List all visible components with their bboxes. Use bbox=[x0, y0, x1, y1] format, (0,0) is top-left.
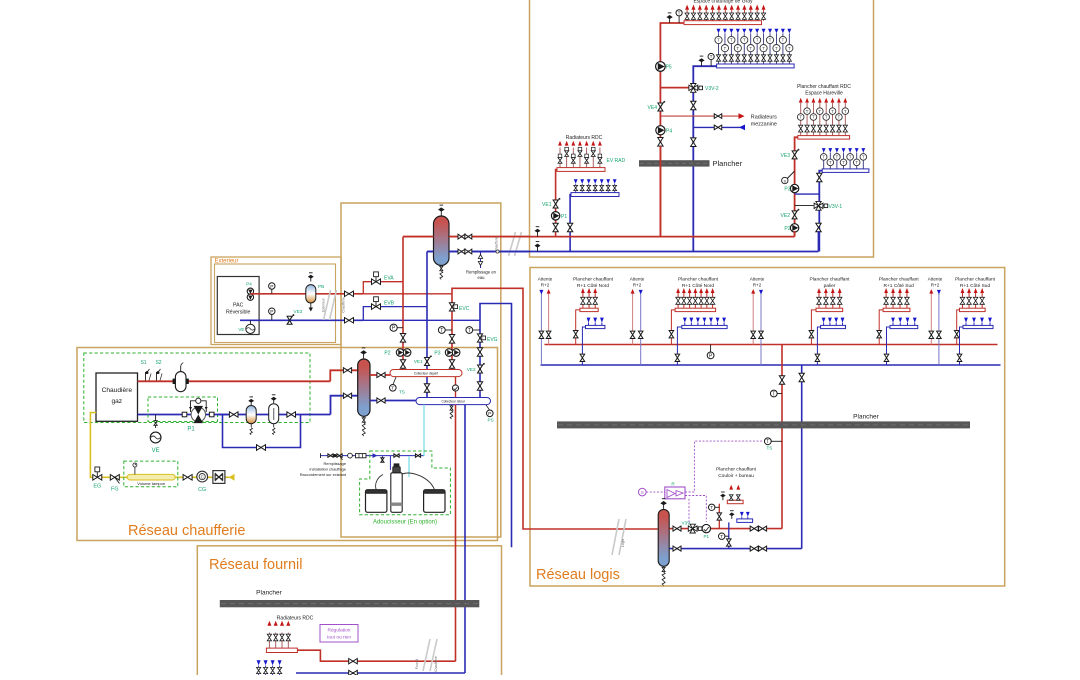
pipe: logis red riser bbox=[781, 345, 783, 529]
plancher slab fournil bbox=[220, 600, 480, 607]
pipe: logis red main bbox=[545, 344, 998, 346]
svg-text:Réseau logis: Réseau logis bbox=[536, 567, 620, 583]
valves on blue main bbox=[458, 249, 465, 254]
pump P3 (Hareville) bbox=[790, 184, 798, 192]
svg-text:V3V: V3V bbox=[682, 521, 692, 526]
svg-text:R+2: R+2 bbox=[753, 283, 762, 288]
svg-text:Plancher chauffant: Plancher chauffant bbox=[879, 277, 920, 283]
svg-text:R+2: R+2 bbox=[633, 283, 642, 288]
svg-text:EV RAD: EV RAD bbox=[607, 158, 626, 164]
valve on blue drop bbox=[567, 223, 572, 232]
valve on red at chaufferie border bbox=[345, 291, 354, 296]
manifold: Radiateurs RDC blue return (7) bbox=[571, 193, 619, 197]
pipe: fournil red supply vertical bbox=[455, 405, 457, 662]
valve below V3V-1 bbox=[816, 223, 821, 232]
pipe: blue vertical from top box to collecteur retour bbox=[426, 252, 428, 398]
manifold: fournil radiators blue (4) bbox=[258, 666, 260, 676]
svg-text:T: T bbox=[710, 505, 713, 511]
svg-text:mezzanine: mezzanine bbox=[751, 122, 777, 128]
svg-text:Plancher: Plancher bbox=[256, 590, 282, 597]
svg-text:EG: EG bbox=[93, 484, 101, 490]
valve blue before tank bbox=[343, 393, 351, 398]
svg-text:T: T bbox=[720, 534, 723, 540]
svg-text:Exterieur: Exterieur bbox=[215, 259, 239, 265]
tank: bouteille de decouplage (upper) bbox=[440, 211, 442, 216]
svg-text:S: S bbox=[641, 490, 644, 495]
svg-text:Régulation: Régulation bbox=[328, 628, 351, 634]
zone: pump P1 dashed box bbox=[148, 397, 218, 422]
svg-text:T: T bbox=[836, 155, 839, 160]
pipe: tank to collecteur depart bbox=[370, 374, 390, 376]
svg-text:EVC: EVC bbox=[459, 306, 470, 312]
collecteur depart bbox=[390, 370, 462, 377]
valve V3V-2 three-way bbox=[660, 87, 693, 89]
svg-text:T: T bbox=[799, 115, 802, 120]
gas meter box bbox=[213, 471, 225, 484]
pipe: logis blue main bbox=[541, 364, 1001, 366]
svg-text:T: T bbox=[806, 109, 809, 114]
svg-text:T: T bbox=[822, 155, 825, 160]
gas arrow bbox=[229, 474, 235, 481]
svg-text:VE2: VE2 bbox=[781, 213, 791, 219]
svg-text:S2: S2 bbox=[155, 360, 161, 366]
zone: boiler circuit dashed box bbox=[84, 353, 310, 423]
svg-text:Chaufferie: Chaufferie bbox=[342, 297, 346, 313]
gauge P on logis red main bbox=[710, 345, 712, 356]
pipe: red supply elbow to top-left manifold bbox=[660, 23, 684, 237]
valve FG on gas bbox=[110, 475, 119, 481]
pipe: EVC chain red (logis supply) bbox=[452, 288, 658, 529]
flange bbox=[182, 412, 187, 417]
pump fournil (circle) between collectors bbox=[455, 377, 457, 398]
svg-text:R+1 Côté Sud: R+1 Côté Sud bbox=[960, 283, 991, 289]
pipe: fournil blue return vertical bbox=[464, 405, 466, 673]
adoucisseur salt tank right bbox=[424, 490, 445, 513]
svg-text:Plancher: Plancher bbox=[853, 414, 879, 421]
frame: Exterieur outer box bbox=[211, 257, 341, 345]
pump P4 PAC duo bbox=[247, 288, 253, 294]
pump group P2 duo bbox=[396, 349, 404, 357]
svg-text:Réseau fournil: Réseau fournil bbox=[209, 557, 303, 573]
svg-text:P4: P4 bbox=[666, 128, 672, 134]
pipe: EVG chain blue (logis return) bbox=[480, 304, 512, 548]
svg-text:Plancher chauffant: Plancher chauffant bbox=[810, 277, 851, 283]
dirt separator vessel bbox=[250, 402, 252, 405]
pipe: logis blue entry bbox=[670, 548, 802, 550]
gauge T on red riser bbox=[774, 393, 782, 395]
frame: middle distribution box bbox=[341, 203, 501, 537]
pipe: blue to tank with jog bbox=[331, 396, 358, 415]
svg-text:Réversible: Réversible bbox=[226, 310, 251, 316]
gauge PS on collecteur retour bbox=[486, 405, 490, 410]
svg-text:R+1 Côté Sud: R+1 Côté Sud bbox=[884, 283, 915, 289]
svg-text:Attente: Attente bbox=[630, 277, 645, 282]
svg-text:Plancher chauffant: Plancher chauffant bbox=[678, 277, 719, 283]
solenoid valve EVG bbox=[477, 334, 482, 342]
valve V3V-1 three-way bbox=[814, 201, 823, 210]
pump group P3 duo bbox=[445, 349, 453, 357]
svg-text:T: T bbox=[812, 115, 815, 120]
svg-text:T: T bbox=[819, 109, 822, 114]
svg-text:T: T bbox=[844, 109, 847, 114]
svg-text:P: P bbox=[709, 353, 713, 359]
sensor S on Hareville supply bbox=[787, 171, 795, 179]
expansion vessel VE PAC bbox=[246, 324, 255, 333]
drain under chaufferie tank bbox=[363, 416, 365, 421]
svg-text:S: S bbox=[783, 178, 786, 183]
pipe: red riser to red main bbox=[659, 146, 661, 237]
svg-text:PB: PB bbox=[318, 284, 324, 289]
drain under collecteur retour bbox=[451, 405, 453, 409]
svg-text:Plancher chauffant RDC: Plancher chauffant RDC bbox=[797, 84, 851, 90]
regulator R heat exchanger symbol bbox=[665, 487, 685, 499]
valve VE2 (Hareville) bbox=[792, 211, 797, 219]
pump P1 boiler bbox=[191, 407, 205, 421]
svg-text:T: T bbox=[737, 46, 740, 51]
svg-text:Espace chauffage de Gray: Espace chauffage de Gray bbox=[693, 0, 753, 5]
svg-text:Attente: Attente bbox=[538, 277, 553, 282]
svg-text:CG: CG bbox=[198, 487, 206, 493]
air vent on red pipe bbox=[669, 19, 671, 24]
gauge T on blue pipe bbox=[710, 57, 712, 67]
svg-text:VE: VE bbox=[152, 448, 160, 454]
collecteur retour bbox=[416, 398, 491, 405]
svg-text:T: T bbox=[756, 38, 759, 43]
gas meter CG circle bbox=[197, 471, 208, 482]
svg-text:Espace Hareville: Espace Hareville bbox=[805, 91, 843, 97]
expansion vessel PB bbox=[310, 278, 312, 282]
svg-text:T: T bbox=[717, 38, 720, 43]
branch: radiateurs mezzanine blue bbox=[693, 126, 745, 128]
pipe break hatch fournil bbox=[423, 639, 430, 671]
svg-text:Plancher: Plancher bbox=[713, 159, 743, 168]
pipe: fournil red loop bbox=[297, 650, 455, 661]
gauge P on PAC blue bbox=[271, 311, 273, 320]
pipe: PAC blue return bbox=[240, 319, 363, 321]
magnetite separator vessel bbox=[273, 400, 275, 403]
svg-text:T: T bbox=[831, 109, 834, 114]
svg-text:VE3: VE3 bbox=[294, 309, 303, 314]
svg-text:TS: TS bbox=[767, 446, 773, 451]
gas line yellow bbox=[90, 413, 229, 478]
svg-text:T: T bbox=[862, 155, 865, 160]
svg-text:Exterieur: Exterieur bbox=[322, 297, 326, 311]
svg-text:VE3: VE3 bbox=[781, 153, 791, 159]
svg-text:T: T bbox=[749, 46, 752, 51]
plancher slab RDC (top box) bbox=[639, 160, 710, 166]
valve on red riser bbox=[779, 376, 784, 385]
svg-text:VE2: VE2 bbox=[467, 367, 476, 372]
valve on fournil red bbox=[349, 659, 358, 664]
valve VE1 bbox=[553, 200, 558, 208]
svg-text:Raccordement sur existant: Raccordement sur existant bbox=[300, 472, 347, 477]
frame: Reseau logis box bbox=[530, 268, 1005, 587]
manifold: Espace blue return manifold with flowmeters (12 loops) bbox=[717, 64, 795, 68]
svg-text:Couloir + bureau: Couloir + bureau bbox=[718, 473, 754, 479]
boiler: Chaudiere gaz bbox=[96, 373, 138, 421]
adoucisseur inlet piping bbox=[381, 456, 383, 462]
remplissage en eau branch bbox=[480, 252, 482, 269]
svg-text:R+1 Côté Nord: R+1 Côté Nord bbox=[682, 283, 714, 289]
svg-text:T: T bbox=[788, 46, 791, 51]
svg-text:T: T bbox=[762, 46, 765, 51]
svg-text:Chaufferie: Chaufferie bbox=[434, 656, 438, 672]
svg-text:Attente: Attente bbox=[928, 277, 943, 282]
valve above P2 bbox=[400, 334, 405, 343]
branch: couloir blue return bbox=[728, 522, 730, 548]
two valves red before riser bbox=[750, 526, 758, 531]
svg-text:T: T bbox=[769, 38, 772, 43]
valve below P4 bbox=[658, 138, 663, 147]
valve below P1 bbox=[553, 223, 558, 232]
air separator pot on red bbox=[175, 372, 186, 392]
svg-text:P2: P2 bbox=[384, 351, 390, 357]
manifold couloir red bbox=[727, 500, 743, 504]
gauge P on P2 chain bbox=[394, 327, 403, 329]
svg-text:T: T bbox=[825, 115, 828, 120]
svg-text:installation chauffage: installation chauffage bbox=[310, 466, 346, 471]
pipe break hatch at Exterieur border bbox=[324, 290, 331, 320]
plancher slab logis bbox=[557, 421, 970, 428]
svg-text:T: T bbox=[829, 160, 832, 165]
svg-text:T: T bbox=[855, 160, 858, 165]
svg-text:Fournil: Fournil bbox=[415, 659, 419, 670]
drain under logis tank bbox=[663, 566, 665, 570]
valve below P2 bbox=[400, 360, 405, 369]
svg-text:T: T bbox=[710, 54, 713, 59]
gauge TS on red riser below slab bbox=[768, 440, 782, 442]
valve on bypass bbox=[257, 445, 266, 451]
zone: adoucisseur dashed box bbox=[360, 451, 451, 515]
svg-text:Collecteur retour: Collecteur retour bbox=[441, 399, 466, 403]
air vent on red main bbox=[537, 232, 539, 237]
manifold: Espace red supply manifold (13 loops) bbox=[684, 21, 762, 25]
pipe: PAC red to EVC chain bbox=[363, 293, 452, 295]
gauge T on EVC chain bbox=[442, 329, 452, 331]
valve blue 2 bbox=[287, 412, 296, 417]
adoucisseur softener column bbox=[391, 473, 402, 513]
pipe: blue main of top box bbox=[427, 251, 819, 253]
hose left tank to inlet bbox=[376, 475, 383, 490]
valve after tank red bbox=[673, 526, 681, 531]
pipe: EVA branch red bbox=[363, 282, 403, 294]
svg-text:P3: P3 bbox=[434, 351, 440, 357]
svg-text:Plancher chauffant: Plancher chauffant bbox=[955, 277, 996, 283]
tank: bouteille logis bbox=[663, 505, 665, 509]
pipe: blue drop to blue main bbox=[569, 195, 572, 252]
svg-text:VE1: VE1 bbox=[542, 202, 552, 208]
svg-text:VE1: VE1 bbox=[414, 359, 423, 364]
unit: PAC Reversible bbox=[217, 277, 259, 335]
svg-text:R+1 Côté Nord: R+1 Côté Nord bbox=[577, 283, 609, 289]
zone: volume tampon dashed box bbox=[124, 461, 178, 487]
valve red before tank bbox=[343, 368, 351, 373]
gauge P on PAC red bbox=[271, 286, 273, 294]
svg-text:P5: P5 bbox=[666, 65, 672, 71]
pipe: tank to collecteur retour bbox=[370, 400, 416, 402]
svg-text:EVG: EVG bbox=[487, 337, 498, 343]
svg-text:Radiateurs RDC: Radiateurs RDC bbox=[566, 135, 603, 141]
valve after tank blue bbox=[673, 546, 681, 551]
svg-text:FG: FG bbox=[111, 487, 119, 493]
gauge T on red pipe bbox=[678, 13, 680, 23]
svg-text:Chaufferie: Chaufferie bbox=[495, 236, 499, 251]
pipe: blue crossover at P3 bbox=[795, 193, 819, 195]
tank: bouteille chaufferie bbox=[363, 354, 365, 359]
svg-text:Adoucisseur (En option): Adoucisseur (En option) bbox=[373, 520, 437, 526]
pipe: red main of top box bbox=[403, 236, 795, 238]
branch: radiateurs mezzanine red bbox=[660, 115, 740, 117]
pipe: red main from tank to top box bbox=[449, 236, 530, 238]
pipe: fournil blue return bbox=[296, 672, 465, 674]
svg-text:EVA: EVA bbox=[384, 276, 394, 282]
pipe break hatch on mains bbox=[509, 232, 516, 256]
pump P1 (radiateurs RDC) bbox=[551, 212, 559, 220]
bypass over P1 with check valve bbox=[191, 401, 207, 412]
svg-text:TS: TS bbox=[399, 390, 405, 395]
regulation dashed lines bbox=[685, 441, 762, 492]
svg-text:V3V-2: V3V-2 bbox=[705, 86, 719, 92]
pipe: Hareville red drop bbox=[795, 137, 798, 236]
manifold: fournil radiators red (4) bbox=[266, 648, 297, 652]
valve on Hareville blue drop bbox=[817, 173, 822, 182]
cyan fill line from collecteur retour bbox=[423, 405, 425, 457]
pump P2 (Hareville) bbox=[790, 224, 798, 232]
svg-text:Réseau chaufferie: Réseau chaufferie bbox=[128, 523, 245, 539]
valve VE3 PAC bbox=[287, 316, 292, 324]
svg-text:Radiateurs RDC: Radiateurs RDC bbox=[277, 616, 314, 622]
svg-text:VE4: VE4 bbox=[648, 105, 658, 111]
svg-text:P1: P1 bbox=[561, 214, 567, 220]
svg-text:Volume tampon: Volume tampon bbox=[137, 481, 165, 486]
valve VE3 (Hareville) bbox=[792, 151, 797, 159]
remplissage chain to adoucisseur bbox=[321, 455, 391, 457]
svg-text:R+2: R+2 bbox=[541, 283, 550, 288]
pipe: logis blue riser bbox=[801, 365, 803, 549]
valve VE1 on blue vertical bbox=[425, 358, 430, 366]
svg-text:P3: P3 bbox=[784, 187, 790, 193]
pipe: Hareville blue drop bbox=[819, 171, 822, 252]
svg-text:Plancher chauffant: Plancher chauffant bbox=[716, 467, 757, 473]
junction marker on blue main at border bbox=[496, 250, 499, 253]
svg-text:S1: S1 bbox=[140, 360, 146, 366]
svg-text:T: T bbox=[772, 391, 775, 397]
pipe: red to tank with jog bbox=[330, 370, 357, 381]
solenoid valve EG on gas bbox=[93, 475, 102, 481]
branch: plancher couloir + bureau red bbox=[718, 504, 720, 529]
pipe: blue through separators bbox=[217, 414, 331, 416]
svg-text:P: P bbox=[392, 326, 396, 332]
pipe: EVB branch blue bbox=[363, 307, 427, 321]
svg-text:Logis: Logis bbox=[621, 539, 625, 547]
svg-text:Remplissage en: Remplissage en bbox=[466, 270, 497, 275]
flange bbox=[209, 412, 214, 417]
svg-text:P1: P1 bbox=[703, 534, 709, 539]
frame: top distribution box (RDC reseau) bbox=[530, 0, 874, 257]
valve V3V logis bbox=[688, 524, 697, 533]
pipe: black link to V3V-1 bbox=[795, 205, 814, 207]
svg-text:Chaudière: Chaudière bbox=[102, 387, 133, 394]
valve on blue riser below mezzanine bbox=[691, 138, 696, 147]
svg-text:T: T bbox=[678, 11, 681, 16]
valve below P3 bbox=[449, 360, 454, 369]
pipe: boiler red supply bbox=[138, 380, 331, 382]
valve on blue vertical lower bbox=[424, 384, 429, 393]
svg-text:VE: VE bbox=[238, 327, 244, 332]
valve above P3 bbox=[449, 335, 454, 344]
valve below VE2 bbox=[477, 382, 482, 391]
valve above VE2 bbox=[477, 348, 482, 357]
pump P4 bbox=[656, 126, 665, 135]
pipe: boiler blue return bbox=[138, 414, 229, 416]
solenoid valve EVB bbox=[372, 304, 381, 310]
valve on blue below V3V-2 bbox=[691, 101, 696, 110]
svg-text:T: T bbox=[743, 38, 746, 43]
valve on blue at chaufferie border bbox=[345, 318, 354, 323]
svg-text:T: T bbox=[838, 115, 841, 120]
valve VE4 on red riser bbox=[658, 103, 663, 111]
svg-text:T: T bbox=[782, 38, 785, 43]
pipe: blue main from tank to top box bbox=[449, 251, 530, 253]
bypass line under separators bbox=[223, 415, 301, 448]
pipe: red drop VE1/P1 to red main bbox=[556, 170, 557, 237]
adoucisseur salt tank left bbox=[366, 490, 387, 513]
svg-text:T: T bbox=[842, 160, 845, 165]
valve blue 1 bbox=[229, 412, 238, 417]
svg-text:eau: eau bbox=[478, 275, 486, 280]
valves on red main bbox=[458, 234, 465, 239]
svg-text:EVB: EVB bbox=[384, 300, 395, 306]
svg-text:PAC: PAC bbox=[233, 303, 244, 309]
expansion vessel VE boiler bbox=[155, 415, 157, 429]
manifold: Hareville red supply with thermostatic heads (8) bbox=[798, 136, 850, 140]
svg-text:Attente: Attente bbox=[750, 277, 765, 282]
pipe: logis red entry from tank to riser bbox=[670, 528, 783, 530]
svg-text:T: T bbox=[775, 46, 778, 51]
regulation tout ou rien box bbox=[320, 625, 358, 643]
svg-text:palier: palier bbox=[824, 283, 836, 289]
pipe: PAC red supply bbox=[250, 293, 363, 295]
svg-text:T: T bbox=[440, 328, 443, 334]
air vent on blue main bbox=[537, 247, 539, 252]
regulation sensor S logis bbox=[639, 488, 647, 496]
gauge T on EVG chain bbox=[469, 329, 480, 331]
manifold couloir blue bbox=[737, 519, 753, 523]
valve VE2 on EVG chain bbox=[478, 365, 483, 373]
svg-text:R+2: R+2 bbox=[931, 283, 940, 288]
svg-text:Remplissage: Remplissage bbox=[324, 461, 347, 466]
pump P5 bbox=[656, 62, 666, 72]
svg-text:P: P bbox=[270, 309, 273, 315]
svg-text:tout ou rien: tout ou rien bbox=[327, 635, 351, 641]
svg-text:Radiateurs: Radiateurs bbox=[751, 115, 777, 121]
svg-text:P: P bbox=[270, 284, 273, 290]
svg-text:Collecteur départ: Collecteur départ bbox=[414, 371, 438, 375]
valve on blue riser bbox=[799, 373, 804, 382]
svg-text:P4: P4 bbox=[246, 282, 252, 287]
svg-text:T: T bbox=[468, 328, 471, 334]
svg-text:P2: P2 bbox=[784, 226, 790, 232]
frame: Exterieur inner box bbox=[215, 264, 336, 343]
frame: Reseau fournil box bbox=[197, 546, 501, 680]
svg-text:C: C bbox=[201, 475, 204, 480]
svg-text:T: T bbox=[724, 46, 727, 51]
pipe: PAC blue to EVG chain bbox=[363, 319, 480, 321]
manifold: Hareville blue return with heads (7) bbox=[822, 169, 869, 173]
pump P1 logis bbox=[702, 524, 710, 532]
solenoid valve EVA bbox=[372, 279, 381, 285]
air vent on blue pipe bbox=[701, 62, 703, 66]
